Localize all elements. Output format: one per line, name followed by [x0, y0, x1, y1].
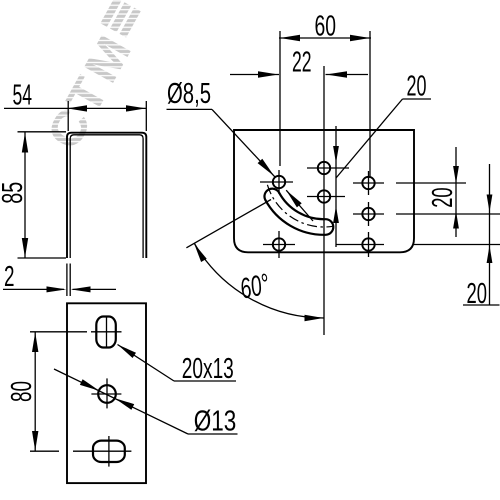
svg-text:80: 80: [6, 381, 38, 402]
svg-text:85: 85: [0, 182, 29, 204]
svg-text:Ø8,5: Ø8,5: [167, 78, 211, 110]
svg-text:20: 20: [427, 187, 459, 207]
svg-text:20: 20: [466, 278, 487, 310]
svg-text:20x13: 20x13: [182, 353, 234, 385]
svg-text:20: 20: [407, 71, 427, 103]
svg-text:22: 22: [292, 47, 312, 79]
svg-text:2: 2: [4, 261, 15, 293]
svg-text:54: 54: [12, 80, 32, 112]
svg-text:60: 60: [314, 10, 336, 42]
svg-text:Ø13: Ø13: [194, 406, 237, 438]
